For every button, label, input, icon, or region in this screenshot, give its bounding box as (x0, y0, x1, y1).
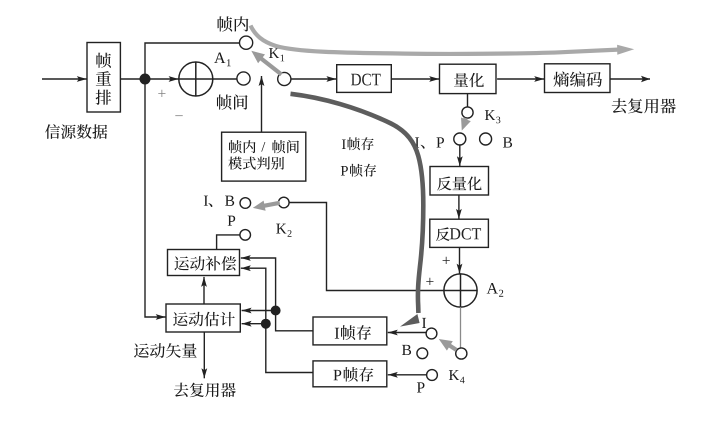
label P of K4 (417, 382, 425, 392)
wire 帧重排 to A1 (120, 76, 178, 82)
box entropy coder 熵编码 (545, 64, 611, 93)
wire K4 I contact to I frame store (388, 330, 426, 336)
label K4 (449, 370, 465, 383)
label K3 (485, 110, 500, 123)
wire motion-estimation to motion-compensation up arrow (201, 277, 207, 304)
box frame-reorder 帧重排 (87, 43, 120, 113)
label A2 (487, 283, 504, 297)
label I of K4 (422, 318, 426, 328)
wire D1 up to intra contact (145, 43, 240, 79)
dark gray S-curve from K1 to I frame store (291, 94, 424, 327)
switch K2 gray arm (253, 201, 280, 211)
box motion estimation 运动估计 (166, 304, 240, 332)
wire motion vector output down arrow (201, 332, 207, 378)
label B of K3 (503, 137, 512, 147)
switch K4 pole circle (456, 348, 467, 359)
wire motion-compensation top to K2 P contact (217, 235, 240, 249)
switch K2 pole circle (279, 197, 290, 208)
label 帧内 intra (218, 16, 249, 31)
wire K3 to dequantizer (457, 145, 463, 166)
label K2 (276, 224, 291, 237)
summing junction A2 (444, 274, 477, 307)
contact circle inter (237, 72, 250, 85)
label minus near A1 (175, 114, 182, 117)
wire A1 to inter contact (213, 78, 238, 80)
wire I-store to MC and ME upper bus (241, 255, 313, 331)
wire D1 down to motion-estimation (145, 79, 166, 320)
contact circle I,B of K2 (240, 198, 251, 209)
box IDCT 反DCT (430, 219, 489, 247)
label I帧存 floating (342, 137, 374, 150)
switch K4 gray arm (439, 339, 457, 351)
contact circle P of K4 (427, 370, 438, 381)
contact circle I,P of K3 (454, 133, 466, 145)
summing junction A1 (179, 62, 213, 96)
gray top curve arrow to demultiplexer (251, 26, 635, 55)
label plus left of A2 (426, 278, 433, 285)
wire A2 to K4 pole gray (460, 307, 462, 348)
label plus above A2 (443, 257, 450, 264)
wire dequantizer to IDCT (456, 195, 462, 219)
wire P-store to MC and ME lower bus (241, 265, 313, 372)
switch K1 gray arm (251, 51, 281, 75)
label plus near A1 (158, 90, 165, 97)
box I frame store I帧存 (313, 317, 387, 345)
wire mode decision up arrow (259, 76, 265, 132)
label P帧存 floating (341, 164, 376, 177)
box dequantizer 反量化 (430, 167, 489, 196)
label 信源数据 source data (45, 124, 107, 139)
label 运动矢量 motion vector (134, 343, 197, 358)
switch K3 gray arm (461, 118, 471, 131)
label K1 (269, 48, 284, 61)
wire DCT to quantizer (391, 76, 439, 82)
contact circle intra (240, 36, 253, 49)
label I、P (415, 137, 444, 148)
label 去复用器 to multiplexer bottom (174, 383, 236, 398)
label A1 (214, 52, 231, 66)
label P of K2 (228, 216, 236, 226)
contact circle B of K3 (480, 133, 492, 145)
box quantizer 量化 (440, 64, 497, 93)
wire input arrow (42, 76, 87, 82)
junction dot D2 (271, 306, 280, 315)
wire K4 P contact to P frame store (388, 372, 427, 378)
box DCT (337, 65, 392, 93)
label 去复用器 to multiplexer top (612, 98, 676, 113)
label 帧间 inter (217, 94, 248, 109)
wire output arrow (610, 76, 650, 82)
wire K2 pole to A2 left input (289, 203, 444, 291)
wire quantizer to entropy coder (497, 76, 544, 82)
box P frame store P帧存 (313, 361, 387, 387)
junction dot D1 (140, 74, 150, 84)
wire IDCT to A2 (457, 247, 463, 273)
contact circle B of K4 (417, 348, 428, 359)
contact circle P of K2 (240, 230, 251, 241)
wire pole to DCT (291, 76, 337, 82)
box motion compensation 运动补偿 (168, 250, 240, 276)
box mode decision 帧内/帧间模式判别 (222, 132, 306, 181)
switch K3 pole circle (462, 107, 473, 118)
junction dot D3 (261, 319, 270, 328)
switch K1 pole circle (278, 72, 291, 85)
contact circle I of K4 (426, 328, 437, 339)
label B of K4 (402, 345, 411, 355)
wire quantizer bottom to K3 pole (467, 94, 469, 107)
label I、B of K2 (204, 196, 234, 207)
